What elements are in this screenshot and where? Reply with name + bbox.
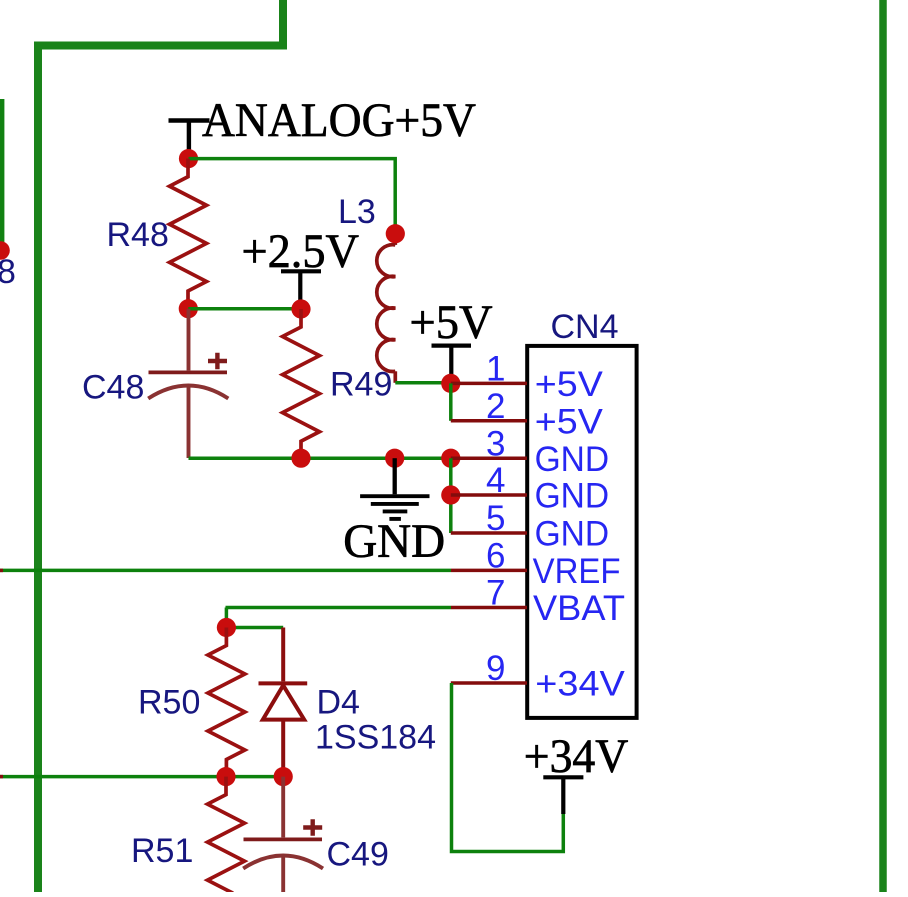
- wire VBAT horizontal: [226, 606, 452, 610]
- svg-text:8: 8: [0, 253, 16, 291]
- wire VREF from left edge: [0, 569, 451, 573]
- svg-text:GND: GND: [535, 477, 610, 516]
- pin 7 stub: [451, 606, 527, 610]
- wire ANALOG+5V to L3 top: [189, 159, 396, 234]
- wire node3 horizontal C48/R49/GND/pin3: [189, 456, 451, 460]
- svg-text:GND: GND: [535, 515, 610, 554]
- svg-text:C48: C48: [82, 369, 144, 407]
- node junction pin 4: [441, 485, 460, 504]
- capacitor C48: [148, 309, 228, 458]
- pin 4 stub: [451, 493, 527, 497]
- wire VREF red sliver left edge: [0, 569, 3, 573]
- svg-text:VBAT: VBAT: [533, 589, 625, 628]
- svg-text:VREF: VREF: [533, 552, 621, 591]
- svg-text:+5V: +5V: [535, 365, 604, 404]
- pin 9 stub: [451, 681, 527, 685]
- svg-text:+5V: +5V: [410, 297, 493, 349]
- connector CN4 box: [527, 346, 636, 718]
- wire thick right edge vertical: [879, 0, 887, 895]
- wire L3 bottom to pin1 node: [395, 381, 451, 385]
- resistor R49: [283, 309, 320, 457]
- pin 3 stub: [451, 456, 527, 460]
- node junction L3 top: [386, 224, 405, 243]
- wire R48 bottom to +2.5V node: [188, 307, 301, 311]
- node junction R49 bottom: [291, 449, 310, 468]
- svg-text:1SS184: 1SS184: [315, 719, 436, 757]
- power flag +34V: [543, 777, 583, 814]
- svg-text:CN4: CN4: [551, 308, 619, 346]
- svg-text:GND: GND: [535, 440, 610, 479]
- wire R50 node to D4: [226, 626, 283, 630]
- resistor R48: [170, 159, 207, 309]
- svg-text:R48: R48: [107, 216, 169, 254]
- svg-text:3: 3: [486, 424, 505, 463]
- svg-text:ANALOG+5V: ANALOG+5V: [202, 95, 476, 147]
- inductor L3: [377, 234, 396, 383]
- svg-text:2: 2: [486, 387, 505, 426]
- node junction VBAT/R50/D4: [217, 618, 236, 637]
- wire bottom node red sliver left edge: [0, 775, 3, 779]
- wire pin3 node down to pin 5: [449, 458, 453, 533]
- wire VBAT down to R50 node: [225, 608, 229, 628]
- svg-text:1: 1: [486, 350, 505, 389]
- pin 6 stub: [451, 569, 527, 573]
- svg-text:D4: D4: [317, 684, 360, 722]
- svg-text:R51: R51: [131, 832, 193, 870]
- pin 2 stub: [451, 419, 527, 423]
- svg-text:+34V: +34V: [535, 665, 625, 704]
- svg-text:R49: R49: [330, 366, 392, 404]
- svg-text:7: 7: [486, 574, 505, 613]
- diode D4: [259, 628, 308, 777]
- node junction at ANALOG+5V: [179, 149, 198, 168]
- capacitor C49: [243, 777, 323, 893]
- svg-text:6: 6: [486, 537, 505, 576]
- svg-text:9: 9: [486, 649, 505, 688]
- wire pin1 node down to pin 2: [449, 383, 453, 420]
- wire bottom node from left edge: [0, 775, 283, 779]
- resistor R51: [208, 777, 245, 894]
- svg-text:R50: R50: [138, 684, 200, 722]
- power flag +5V: [432, 346, 472, 384]
- node junction D4/C49: [274, 767, 293, 786]
- node junction GND tap: [385, 449, 404, 468]
- svg-text:5: 5: [486, 499, 505, 538]
- ground symbol GND: [360, 458, 429, 519]
- svg-text:+5V: +5V: [535, 403, 604, 442]
- svg-text:GND: GND: [343, 516, 445, 568]
- wire left edge stub: [0, 99, 4, 250]
- pin 5 stub: [451, 531, 527, 535]
- wire pin9 loop to +34V: [452, 683, 564, 852]
- svg-text:C49: C49: [327, 836, 389, 874]
- svg-text:4: 4: [486, 461, 505, 500]
- node junction R50/R51: [216, 767, 235, 786]
- power flag ANALOG+5V: [169, 121, 210, 159]
- node junction R48 bottom: [179, 299, 198, 318]
- node junction pin 1: [441, 374, 460, 393]
- resistor R50: [208, 628, 245, 777]
- svg-text:+2.5V: +2.5V: [242, 226, 360, 278]
- svg-text:L3: L3: [338, 193, 376, 231]
- node clipped junction left edge: [0, 241, 10, 260]
- pin 1 stub: [451, 382, 527, 386]
- node junction +2.5V: [291, 299, 310, 318]
- power flag +2.5V: [281, 271, 321, 309]
- node junction pin 3: [441, 449, 460, 468]
- wire thick bus top-left L-shape: [38, 0, 283, 895]
- svg-text:+34V: +34V: [524, 731, 629, 783]
